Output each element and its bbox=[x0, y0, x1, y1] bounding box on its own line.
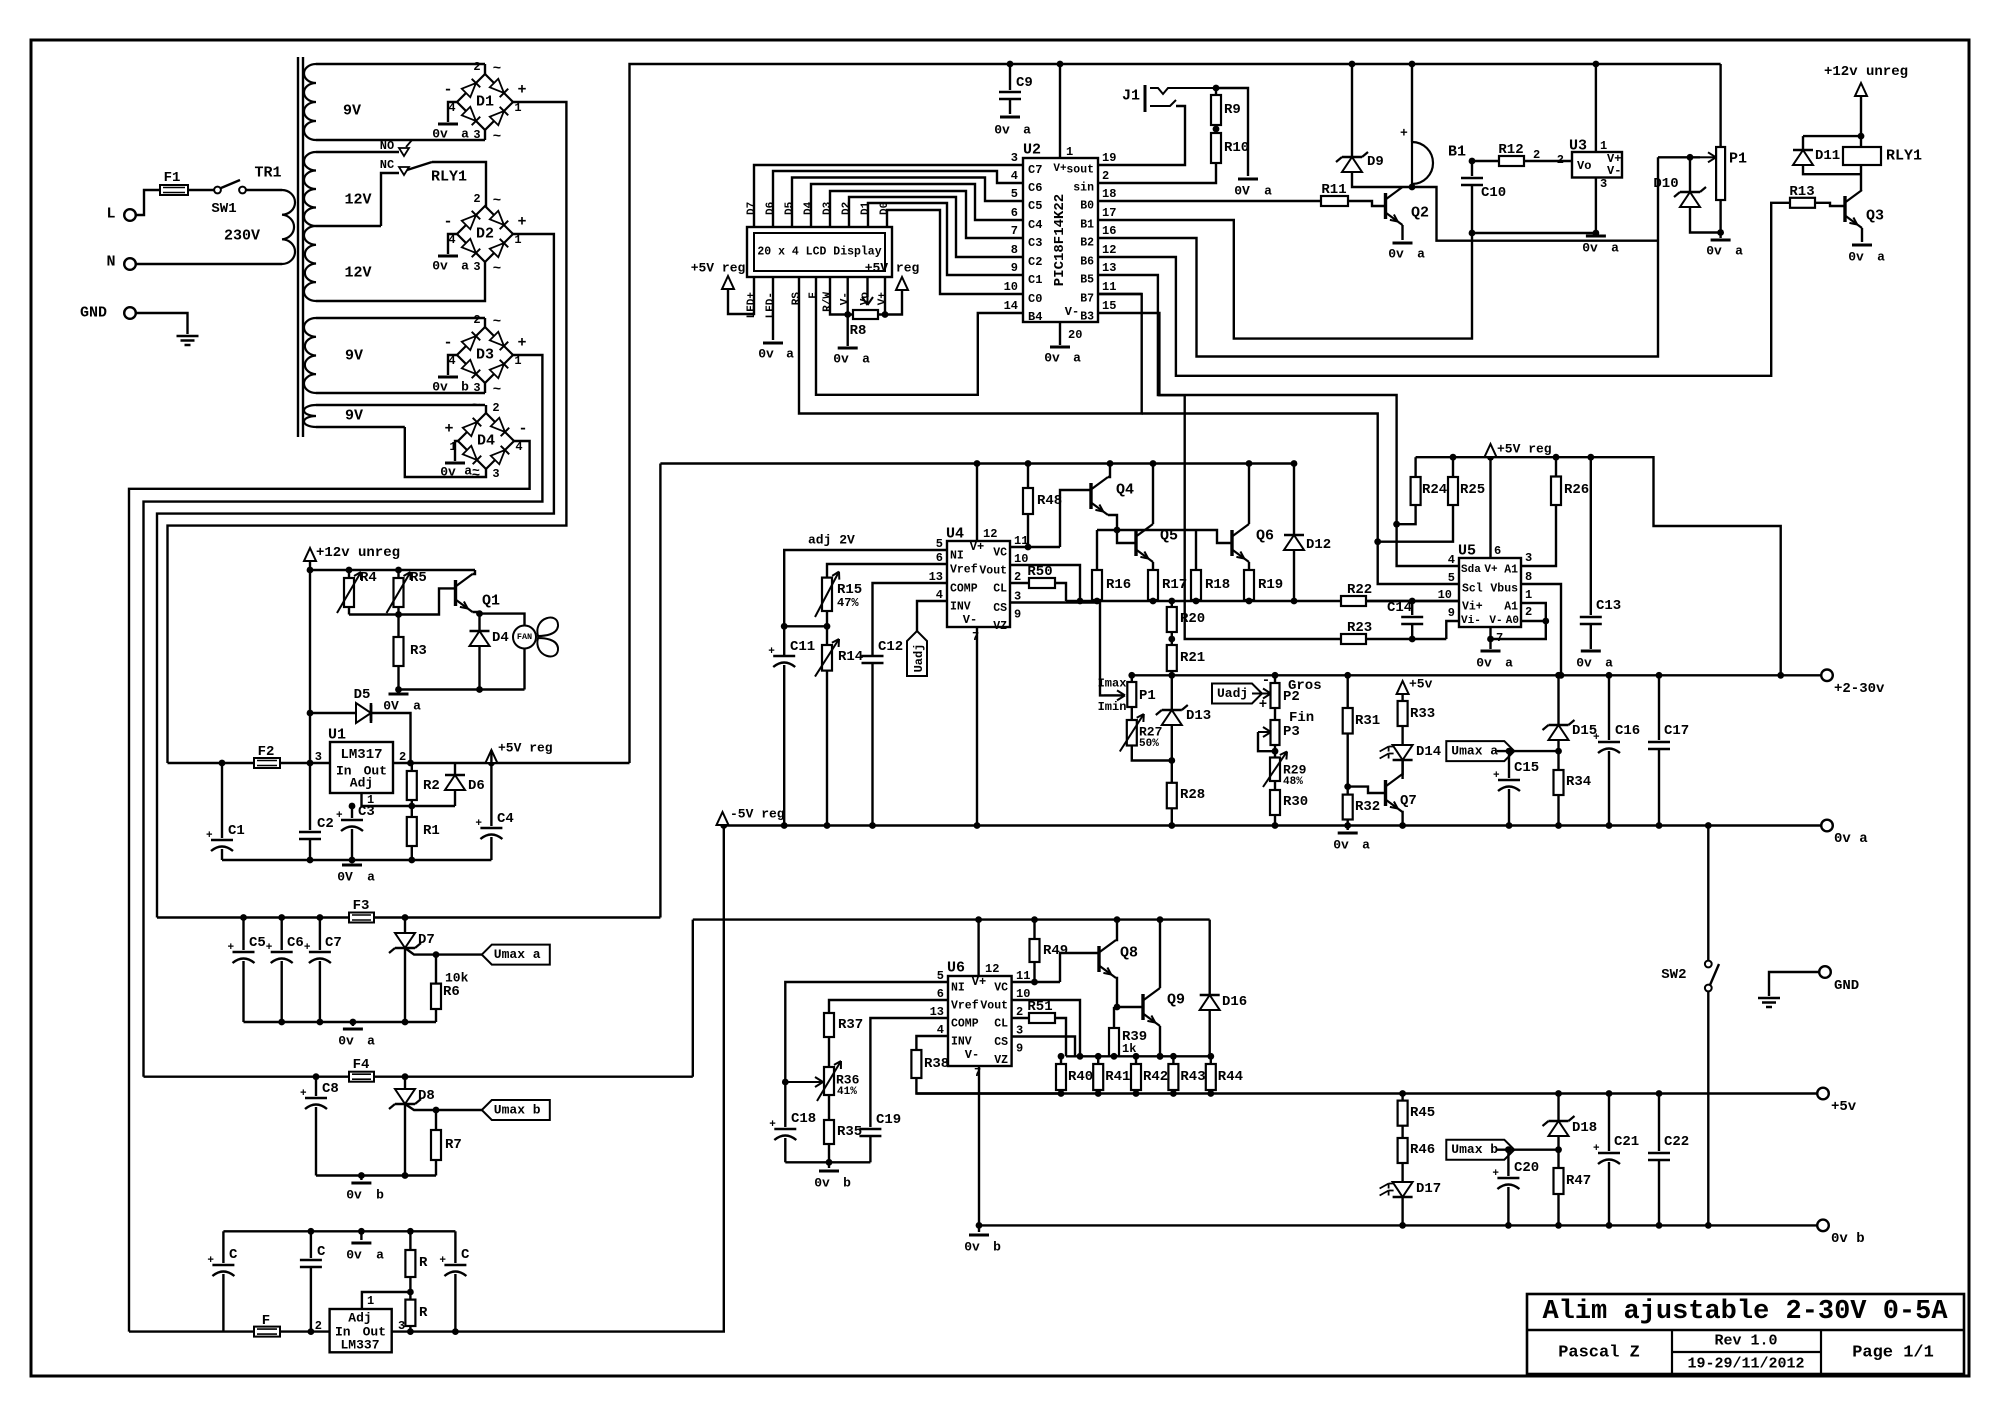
svg-text:Vi-: Vi- bbox=[1461, 615, 1481, 627]
svg-text:19: 19 bbox=[1102, 151, 1116, 165]
wire LED+ to +5V reg arrow bbox=[728, 277, 754, 314]
wire NC to winding tap bbox=[381, 173, 399, 226]
diode D11 bbox=[1803, 135, 1861, 137]
svg-text:D2: D2 bbox=[476, 226, 494, 243]
svg-text:+5v: +5v bbox=[1831, 1099, 1857, 1115]
wire sin to R10 bbox=[1098, 163, 1216, 183]
diode D12 bbox=[1293, 464, 1295, 536]
secondary winding 9V #5 bbox=[304, 405, 316, 427]
svg-text:a: a bbox=[786, 347, 794, 362]
wire R8 right to V+ and +5V reg arrow bbox=[878, 290, 902, 315]
svg-text:0v: 0v bbox=[440, 465, 456, 480]
svg-text:2: 2 bbox=[473, 313, 480, 327]
transistor Q7 bbox=[1384, 780, 1387, 806]
svg-text:Umax a: Umax a bbox=[1451, 744, 1498, 759]
svg-text:D3: D3 bbox=[822, 201, 834, 215]
svg-text:F1: F1 bbox=[164, 170, 181, 186]
svg-text:D16: D16 bbox=[1222, 994, 1247, 1010]
secondary winding 9V #4 bbox=[304, 318, 316, 393]
svg-text:C20: C20 bbox=[1514, 1160, 1539, 1176]
svg-text:0v a: 0v a bbox=[1834, 831, 1868, 847]
svg-text:+: + bbox=[444, 421, 453, 438]
svg-text:R19: R19 bbox=[1258, 577, 1283, 593]
svg-text:B1: B1 bbox=[1448, 144, 1466, 161]
svg-text:0v: 0v bbox=[964, 1240, 980, 1255]
wire Q2 collector node to right bbox=[1403, 187, 1659, 241]
svg-text:C6: C6 bbox=[287, 935, 304, 951]
svg-text:V+: V+ bbox=[877, 292, 889, 306]
svg-text:Uadj: Uadj bbox=[912, 644, 926, 673]
svg-text:R7: R7 bbox=[445, 1137, 462, 1153]
wire U2 pin1 V+ bbox=[1059, 64, 1061, 158]
svg-text:0v: 0v bbox=[432, 127, 448, 142]
bridge rectifier D2 bbox=[457, 206, 513, 262]
V+ rail for U6 bbox=[693, 918, 1210, 920]
svg-text:GND: GND bbox=[80, 305, 107, 322]
svg-text:D10: D10 bbox=[1653, 176, 1678, 192]
svg-text:a: a bbox=[461, 259, 469, 274]
svg-text:B6: B6 bbox=[1080, 256, 1094, 269]
wire rail to P1 top bbox=[1131, 675, 1133, 682]
svg-text:b: b bbox=[376, 1188, 384, 1203]
wire Q4 collector to rail bbox=[1108, 464, 1110, 478]
svg-text:R5: R5 bbox=[410, 570, 427, 586]
svg-text:R40: R40 bbox=[1068, 1069, 1093, 1085]
wire SW1 to primary bbox=[246, 189, 282, 191]
resistor R6 bbox=[435, 955, 437, 984]
svg-text:+12v unreg: +12v unreg bbox=[1824, 64, 1908, 80]
svg-text:C0: C0 bbox=[1028, 292, 1042, 306]
svg-text:+5V reg: +5V reg bbox=[1497, 442, 1552, 457]
svg-text:C11: C11 bbox=[790, 639, 815, 655]
capacitor C7 bbox=[319, 918, 321, 951]
resistor R10 bbox=[1215, 125, 1217, 133]
+5V reg rail above U5 bbox=[1416, 457, 1781, 675]
capacitor C21 bbox=[1608, 1094, 1610, 1152]
svg-text:+5V reg: +5V reg bbox=[865, 261, 920, 276]
svg-text:4: 4 bbox=[1011, 169, 1018, 183]
fuse F bbox=[254, 1327, 280, 1337]
svg-text:4: 4 bbox=[1448, 553, 1455, 567]
svg-text:CS: CS bbox=[994, 1036, 1008, 1049]
svg-text:+: + bbox=[1400, 126, 1408, 141]
svg-text:3: 3 bbox=[473, 260, 480, 274]
wire U6 INV to R38 bbox=[916, 1036, 948, 1050]
svg-text:a: a bbox=[1735, 244, 1743, 259]
svg-text:D12: D12 bbox=[1306, 537, 1331, 553]
svg-text:0v: 0v bbox=[1848, 250, 1864, 265]
svg-text:Q3: Q3 bbox=[1866, 208, 1884, 225]
svg-text:1: 1 bbox=[1066, 145, 1073, 159]
svg-text:9: 9 bbox=[1448, 606, 1455, 620]
potentiometer P1 current bbox=[1127, 682, 1136, 707]
svg-text:P1: P1 bbox=[1729, 151, 1747, 168]
wire U1 out to +5V reg rail bbox=[393, 762, 630, 764]
varistor R29 bbox=[1270, 758, 1280, 782]
svg-text:+: + bbox=[517, 214, 526, 231]
svg-text:D5: D5 bbox=[354, 687, 371, 703]
wire F1 to SW1 bbox=[188, 189, 215, 191]
resistor R23 bbox=[1341, 634, 1366, 644]
svg-text:a: a bbox=[1611, 241, 1619, 256]
resistor R24 bbox=[1414, 457, 1416, 477]
+2-30v output rail bbox=[1132, 674, 1827, 676]
svg-text:+: + bbox=[439, 1255, 446, 1267]
capacitor C17 bbox=[1658, 675, 1660, 740]
svg-text:F3: F3 bbox=[353, 898, 370, 914]
svg-text:RS: RS bbox=[791, 292, 803, 306]
svg-text:sin: sin bbox=[1073, 182, 1094, 195]
svg-text:C10: C10 bbox=[1481, 185, 1506, 201]
svg-text:R47: R47 bbox=[1566, 1173, 1591, 1189]
ground 0V a under C3 bbox=[351, 860, 353, 862]
wire U2 pin20 V- ground bbox=[1059, 322, 1061, 345]
V+ rail for U4 bbox=[660, 462, 1294, 464]
wire Q8 collector bbox=[1116, 920, 1117, 940]
capacitor C14 bbox=[1411, 601, 1413, 615]
wire Q4 emitter to Q5 base bbox=[1108, 515, 1136, 543]
svg-text:D4: D4 bbox=[803, 201, 815, 215]
svg-text:+2-30v: +2-30v bbox=[1834, 681, 1885, 697]
svg-text:R48: R48 bbox=[1037, 493, 1062, 509]
svg-text:INV: INV bbox=[950, 601, 971, 614]
svg-text:LM317: LM317 bbox=[340, 747, 382, 763]
led D17 bbox=[1393, 1182, 1413, 1197]
svg-text:R: R bbox=[419, 1305, 428, 1321]
svg-text:6: 6 bbox=[1011, 206, 1018, 220]
svg-text:a: a bbox=[367, 1034, 375, 1049]
svg-text:a: a bbox=[376, 1248, 384, 1263]
svg-text:2: 2 bbox=[1102, 169, 1109, 183]
svg-text:20: 20 bbox=[1068, 328, 1082, 342]
resistor R21 bbox=[1168, 636, 1175, 643]
ic LM337 bbox=[330, 1309, 392, 1352]
ic U5 current monitor bbox=[1459, 558, 1521, 627]
wire Q7 base bbox=[1348, 787, 1386, 793]
svg-text:0v: 0v bbox=[432, 380, 448, 395]
svg-text:+12v unreg: +12v unreg bbox=[316, 545, 400, 561]
terminal L bbox=[124, 209, 136, 221]
svg-text:a: a bbox=[1417, 247, 1425, 262]
svg-text:C1: C1 bbox=[1028, 273, 1042, 287]
resistors R40-R44 bbox=[1060, 1056, 1062, 1064]
wire U6 CS bbox=[1012, 1037, 1075, 1057]
wire B0 to R11 bbox=[1098, 200, 1321, 202]
svg-text:-5V reg: -5V reg bbox=[730, 807, 785, 822]
ground 0v a in LM337 section bbox=[358, 1228, 365, 1235]
svg-text:C12: C12 bbox=[878, 639, 903, 655]
svg-text:D18: D18 bbox=[1572, 1120, 1597, 1136]
svg-text:Page 1/1: Page 1/1 bbox=[1852, 1344, 1934, 1363]
svg-text:a: a bbox=[1362, 838, 1370, 853]
wire R11 to Q2 base bbox=[1348, 201, 1386, 206]
wire B2 staircase to D10 node bbox=[1098, 157, 1658, 356]
svg-text:+5v: +5v bbox=[1409, 677, 1433, 692]
svg-text:Q1: Q1 bbox=[482, 593, 500, 610]
svg-text:VC: VC bbox=[994, 982, 1008, 995]
svg-text:0v: 0v bbox=[1388, 247, 1404, 262]
svg-text:5: 5 bbox=[1448, 571, 1455, 585]
transistor Q9 bbox=[1141, 994, 1144, 1020]
varistor R15 bbox=[822, 578, 832, 611]
svg-text:adj 2V: adj 2V bbox=[808, 533, 855, 548]
ground line F4 section bbox=[316, 1174, 436, 1176]
lcd data bus wires to U2 bbox=[754, 165, 1023, 227]
resistor R45 bbox=[1401, 1094, 1403, 1101]
svg-text:Vout: Vout bbox=[980, 1000, 1008, 1013]
svg-text:C16: C16 bbox=[1615, 723, 1640, 739]
tag Uadj to P2 bbox=[1212, 684, 1262, 704]
ic U1 LM317 bbox=[330, 742, 393, 793]
svg-text:0v: 0v bbox=[1476, 656, 1492, 671]
ground 0v a at D4 bbox=[455, 441, 458, 461]
buzzer B1 bbox=[1411, 64, 1413, 142]
capacitor C4 bbox=[490, 763, 492, 826]
svg-text:Q6: Q6 bbox=[1256, 528, 1274, 545]
wire jack to ground right bbox=[1216, 88, 1248, 176]
svg-text:~: ~ bbox=[472, 398, 480, 414]
U1 adj wire bbox=[362, 793, 456, 806]
svg-text:R51: R51 bbox=[1027, 999, 1052, 1015]
svg-text:3: 3 bbox=[492, 467, 499, 481]
tag Umax b bbox=[482, 1100, 550, 1120]
svg-text:~: ~ bbox=[493, 193, 501, 209]
svg-text:0v: 0v bbox=[346, 1188, 362, 1203]
svg-text:+: + bbox=[769, 1119, 776, 1131]
+5v output rail bbox=[916, 1092, 1823, 1094]
svg-text:D4: D4 bbox=[477, 433, 495, 450]
wire B6 staircase to R13 bbox=[1098, 203, 1790, 376]
svg-text:V-: V- bbox=[1065, 305, 1079, 319]
svg-text:2: 2 bbox=[315, 1319, 322, 1333]
title block bbox=[1527, 1294, 1964, 1374]
svg-text:P1: P1 bbox=[1139, 688, 1156, 704]
fuse F3 bbox=[349, 913, 374, 923]
svg-text:3: 3 bbox=[473, 381, 480, 395]
wire B1 staircase to C10/R12 bbox=[1098, 220, 1472, 339]
capacitor C3 bbox=[351, 806, 353, 818]
resistor R30 bbox=[1274, 781, 1276, 790]
svg-text:D2: D2 bbox=[841, 202, 853, 215]
wire D4 ac bottom bbox=[405, 427, 486, 477]
svg-text:6: 6 bbox=[1494, 544, 1501, 558]
fuse F2 bbox=[254, 758, 280, 768]
svg-text:Vref: Vref bbox=[950, 564, 978, 577]
resistor R upper bbox=[409, 1231, 411, 1250]
svg-text:~: ~ bbox=[493, 129, 501, 145]
wire U6 V- pin7 to 0v b rail bbox=[978, 1066, 980, 1225]
svg-text:D14: D14 bbox=[1416, 744, 1441, 760]
svg-text:D4: D4 bbox=[492, 630, 509, 646]
svg-text:R14: R14 bbox=[838, 649, 863, 665]
wire D3+ output bbox=[144, 355, 543, 1077]
svg-text:R/W: R/W bbox=[822, 292, 834, 312]
+5V reg arrow bbox=[1485, 444, 1497, 457]
svg-text:Q2: Q2 bbox=[1411, 205, 1429, 222]
svg-text:A1: A1 bbox=[1504, 601, 1518, 614]
terminal 0v a bbox=[1821, 820, 1833, 832]
transistor Q5 bbox=[1134, 530, 1137, 556]
svg-text:Imax: Imax bbox=[1098, 677, 1127, 691]
svg-text:0v: 0v bbox=[758, 347, 774, 362]
svg-text:V+: V+ bbox=[1053, 163, 1067, 175]
svg-text:10: 10 bbox=[1004, 280, 1018, 294]
ground 0v a under R32 bbox=[1346, 826, 1348, 831]
svg-text:R9: R9 bbox=[1224, 102, 1241, 118]
svg-text:R37: R37 bbox=[838, 1017, 863, 1033]
wire U6 VC pin11 bbox=[1012, 981, 1060, 983]
svg-text:b: b bbox=[993, 1240, 1001, 1255]
svg-text:+: + bbox=[1593, 732, 1600, 744]
svg-text:+: + bbox=[336, 810, 343, 822]
svg-text:RLY1: RLY1 bbox=[1886, 148, 1922, 165]
wire D2 ac bottom from winding bbox=[316, 262, 485, 301]
svg-text:C4: C4 bbox=[1028, 218, 1042, 232]
svg-text:~: ~ bbox=[493, 61, 501, 77]
ground 0v a at D1 bbox=[448, 102, 457, 122]
svg-text:Adj: Adj bbox=[350, 776, 373, 791]
-5V reg rail bbox=[717, 812, 729, 825]
secondary winding 12V #2 bbox=[304, 152, 316, 226]
wire E to U2 B4 bbox=[816, 277, 1023, 395]
varistor R27 bbox=[1131, 707, 1133, 720]
wire U5 A1 pin3 to R26 bbox=[1521, 505, 1556, 566]
svg-text:a: a bbox=[413, 699, 421, 714]
zener D13 bbox=[1171, 675, 1173, 710]
wire U5 V+ pin6 bbox=[1489, 457, 1491, 558]
svg-text:R26: R26 bbox=[1564, 482, 1589, 498]
svg-text:Alim ajustable 2-30V 0-5A: Alim ajustable 2-30V 0-5A bbox=[1542, 1297, 1948, 1327]
svg-text:13: 13 bbox=[1102, 261, 1116, 275]
resistor R16 bbox=[1096, 530, 1098, 570]
svg-text:Rev 1.0: Rev 1.0 bbox=[1714, 1333, 1777, 1350]
svg-text:Q4: Q4 bbox=[1116, 482, 1134, 499]
resistor R17 bbox=[1148, 570, 1158, 600]
wire primary to N bbox=[136, 263, 282, 265]
svg-text:C4: C4 bbox=[497, 811, 514, 827]
led D14 bbox=[1393, 745, 1413, 760]
wire D1 ac top bbox=[484, 64, 486, 74]
svg-text:V-: V- bbox=[1607, 164, 1621, 178]
potentiometer P2 Gros bbox=[1274, 675, 1276, 683]
svg-text:C: C bbox=[461, 1247, 470, 1263]
wire D3 ac bottom bbox=[484, 383, 486, 393]
wire Q8 emitter to Q9 base and R39 bbox=[1116, 978, 1143, 1007]
svg-text:SW1: SW1 bbox=[211, 201, 236, 217]
svg-text:R24: R24 bbox=[1422, 482, 1447, 498]
wire U4 V- pin7 to -5V rail bbox=[976, 627, 978, 826]
resistor R13 bbox=[1790, 198, 1815, 208]
resistor R32 bbox=[1346, 787, 1348, 795]
+5v arrow R33 bbox=[1397, 681, 1409, 694]
svg-text:12: 12 bbox=[1102, 243, 1116, 257]
terminal 0v b bbox=[1817, 1220, 1829, 1232]
transistor Q4 bbox=[1089, 483, 1092, 509]
svg-text:5: 5 bbox=[1011, 187, 1018, 201]
wire Q5 emitter to R17 bbox=[1152, 562, 1154, 570]
wire Q1 collector bbox=[473, 570, 476, 574]
svg-text:12V: 12V bbox=[344, 265, 371, 282]
svg-text:R1: R1 bbox=[423, 823, 440, 839]
terminal GND bbox=[1819, 966, 1831, 978]
wire Q9 emitter bbox=[1159, 1026, 1161, 1056]
svg-text:+: + bbox=[1493, 770, 1500, 782]
svg-text:2: 2 bbox=[492, 401, 499, 415]
svg-text:L: L bbox=[106, 206, 115, 223]
svg-text:D9: D9 bbox=[1367, 154, 1384, 170]
tag Umax b output bbox=[1446, 1140, 1514, 1160]
potentiometer P1 top bbox=[1719, 64, 1721, 147]
svg-text:C9: C9 bbox=[1016, 75, 1033, 91]
wire R12 to U3 Vo bbox=[1524, 160, 1572, 162]
wire U5 A1 pin1 and A0 pin2 loop bbox=[1491, 603, 1546, 639]
transistor Q8 bbox=[1097, 946, 1100, 972]
svg-text:D13: D13 bbox=[1186, 708, 1211, 724]
svg-text:+: + bbox=[517, 82, 526, 99]
svg-text:D7: D7 bbox=[418, 932, 435, 948]
bottom wire of U1 section bbox=[222, 859, 491, 861]
svg-text:C: C bbox=[229, 1247, 238, 1263]
svg-text:LM337: LM337 bbox=[340, 1338, 379, 1353]
resistor R26 bbox=[1555, 457, 1557, 476]
zener D15 bbox=[1557, 675, 1559, 725]
svg-text:Vref: Vref bbox=[951, 1000, 979, 1013]
svg-text:R46: R46 bbox=[1410, 1142, 1435, 1158]
wire U6 NI bbox=[785, 982, 948, 1082]
resistor R25 bbox=[1452, 457, 1454, 477]
tag Umax a output bbox=[1446, 741, 1514, 761]
svg-text:VZ: VZ bbox=[994, 1054, 1008, 1067]
svg-text:Q9: Q9 bbox=[1167, 992, 1185, 1009]
svg-text:NC: NC bbox=[380, 158, 394, 172]
svg-text:9: 9 bbox=[1016, 1042, 1023, 1056]
resistor R11 bbox=[1321, 196, 1348, 206]
svg-text:a~: a~ bbox=[464, 464, 480, 479]
svg-text:R22: R22 bbox=[1347, 582, 1372, 598]
resistor R34 bbox=[1554, 770, 1564, 795]
capacitor C16 bbox=[1608, 675, 1610, 740]
wire R4 R5 bottoms to Q1 base bbox=[349, 588, 456, 614]
svg-text:C: C bbox=[317, 1244, 326, 1260]
wire +5V top rail bbox=[630, 64, 1721, 763]
capacitor C15 bbox=[1508, 751, 1510, 778]
relay coil RLY1 bbox=[1843, 147, 1881, 165]
resistor R28 bbox=[1167, 783, 1177, 809]
varistor R5 bbox=[394, 578, 404, 607]
wire D3 ac top bbox=[484, 318, 486, 327]
wire U6 Vref to R37 bbox=[829, 1000, 948, 1013]
resistor R lower bbox=[409, 1292, 411, 1300]
svg-text:0v: 0v bbox=[338, 1034, 354, 1049]
svg-text:C7: C7 bbox=[1028, 163, 1042, 177]
LM337 out line bbox=[392, 826, 724, 1332]
svg-text:12V: 12V bbox=[344, 192, 371, 209]
capacitor C left bbox=[222, 1231, 224, 1263]
svg-text:0v: 0v bbox=[1706, 244, 1722, 259]
wire relay common to D2 bbox=[407, 162, 432, 170]
svg-text:Umax b: Umax b bbox=[494, 1103, 541, 1118]
svg-text:R3: R3 bbox=[410, 643, 427, 659]
resistor R9 bbox=[1215, 88, 1217, 95]
svg-text:R2: R2 bbox=[423, 778, 440, 794]
resistor R18 bbox=[1195, 530, 1197, 570]
svg-text:R17: R17 bbox=[1162, 577, 1187, 593]
svg-text:-: - bbox=[518, 421, 527, 438]
svg-text:1: 1 bbox=[1600, 139, 1607, 153]
svg-text:a: a bbox=[1023, 123, 1031, 138]
svg-text:0v: 0v bbox=[1582, 241, 1598, 256]
svg-text:VC: VC bbox=[993, 547, 1007, 560]
